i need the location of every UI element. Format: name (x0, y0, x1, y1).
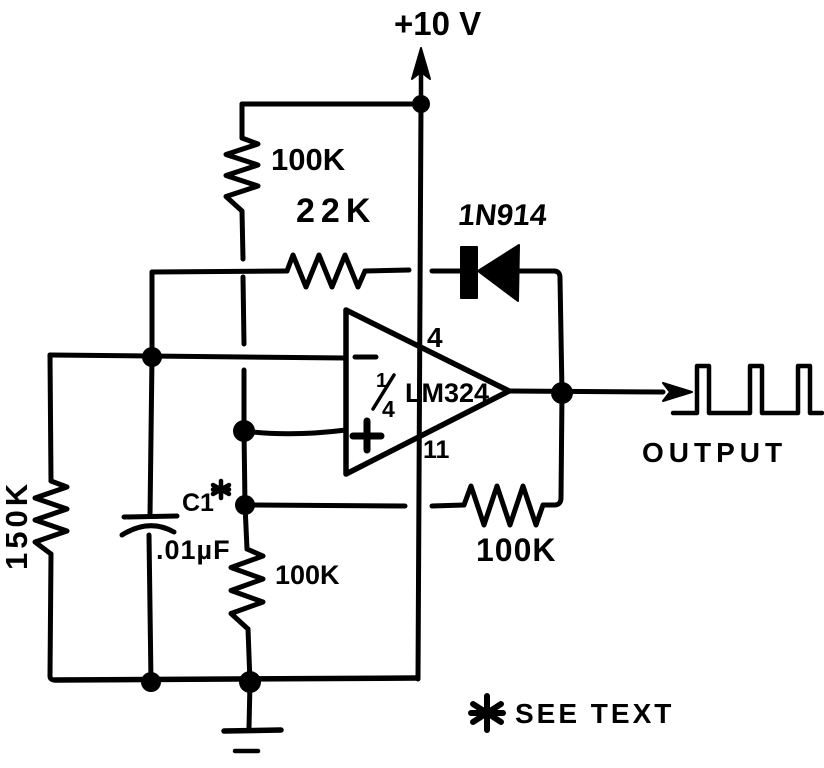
op-amp U1 1/4 LM324 (346, 310, 509, 474)
svg-text:4: 4 (427, 322, 443, 353)
wire middle rail segment (to non-inverting node) (242, 370, 247, 431)
wire bottom ground rail (55, 678, 417, 680)
svg-text:+10 V: +10 V (394, 5, 481, 42)
wire inverting input (horizontal) (50, 355, 346, 358)
wire output vertical to feedback (543, 393, 562, 505)
output arrowhead (663, 383, 692, 401)
resistor R3 100K (feedback horizontal) (432, 486, 543, 525)
wire diode to right vertical (518, 271, 562, 393)
wire middle rail segment (between 22K wire and inverting wire) (243, 277, 244, 344)
svg-text:4: 4 (382, 396, 395, 422)
C1 star (213, 481, 229, 498)
svg-text:SEE TEXT: SEE TEXT (515, 698, 674, 729)
svg-text:22K: 22K (296, 192, 376, 230)
+10V supply arrow (412, 48, 430, 104)
svg-text:.01µF: .01µF (156, 535, 231, 565)
capacitor C1 (122, 357, 177, 682)
svg-text:LM324: LM324 (405, 378, 489, 408)
resistor R5 100K (bottom) (231, 505, 263, 682)
see-text star (471, 696, 503, 730)
wire 22K left branch down to inverting node (150, 272, 155, 357)
U1 label 1/4 LM324 (376, 370, 489, 422)
resistor R2 22K (horizontal) (152, 255, 409, 287)
wire diode left lead (432, 269, 460, 274)
node output junction (551, 382, 573, 404)
node inverting junction (142, 347, 162, 367)
svg-text:100K: 100K (271, 142, 346, 177)
node top rail junction (412, 95, 430, 113)
wire top rail horizontal (242, 102, 421, 107)
node cap-bottom junction (141, 672, 161, 692)
svg-text:150K: 150K (0, 480, 34, 570)
wire output (509, 391, 663, 392)
wire feedback node to rail (244, 431, 245, 505)
node ground junction (239, 671, 261, 693)
wire +10V vertical rail (418, 104, 421, 679)
svg-text:100K: 100K (476, 532, 557, 568)
wire feedback left segment (245, 505, 405, 506)
diode D1 1N914 (461, 245, 519, 301)
node feedback junction (235, 495, 255, 515)
resistor R4 150K (left) (35, 355, 67, 680)
node non-inverting junction (233, 420, 255, 442)
ground symbol (224, 682, 281, 751)
resistor R1 100K (top) (226, 104, 258, 259)
wire non-inverting input (244, 430, 346, 434)
output waveform (673, 366, 822, 413)
svg-text:OUTPUT: OUTPUT (642, 437, 787, 468)
svg-text:1N914: 1N914 (457, 199, 549, 232)
svg-text:C1: C1 (182, 489, 214, 517)
svg-text:100K: 100K (275, 560, 340, 590)
svg-text:11: 11 (423, 436, 450, 464)
